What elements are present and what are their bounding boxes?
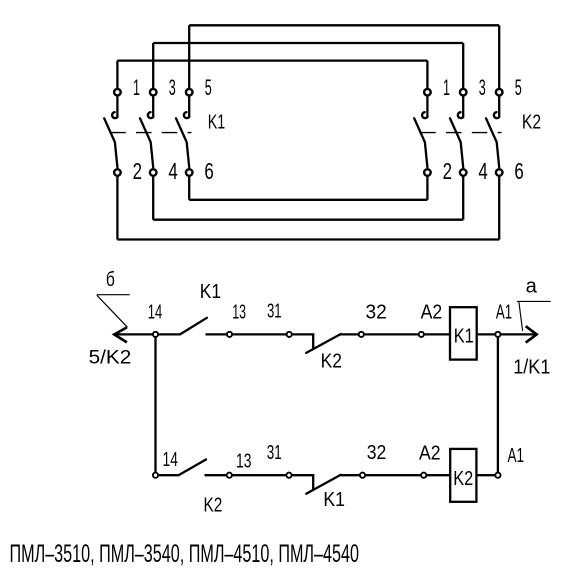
mechanical link dashed line K2 [420, 132, 501, 134]
wire: rung1 node32 to nodeA2 [364, 333, 419, 335]
contact blade K2 pole 3-4 [450, 118, 463, 167]
node 14 (rung1) [153, 332, 158, 337]
node 32 (rung1) [359, 332, 364, 337]
wire + arrow to a (rung1 right end) [501, 326, 537, 342]
svg-text:5: 5 [515, 75, 522, 100]
contactor K2 main pole 5-6 [486, 25, 503, 239]
svg-text:14: 14 [148, 301, 163, 323]
wire: vertical feed right (nodeA1 to lower rung) [497, 337, 499, 473]
svg-text:K1: K1 [323, 489, 345, 511]
wire: top bus L3 (K1:5 to K2:5) [189, 24, 499, 26]
svg-text:A2: A2 [421, 301, 443, 323]
wire: bottom bus (K1:6 to K2:2) [189, 199, 427, 201]
svg-text:6: 6 [514, 158, 523, 184]
wire: rung2 node32 to nodeA2 [365, 474, 421, 476]
node 31 (rung1) [287, 332, 292, 337]
svg-text:K2: K2 [522, 111, 541, 133]
contact blade K1 pole 1-2 [104, 118, 117, 167]
node a: flag label [517, 274, 551, 331]
wire: K1 pole 3-4 top lead [152, 43, 154, 88]
fixed contact lead+hook K1 pole 5-6 [184, 96, 190, 118]
svg-text:32: 32 [366, 301, 387, 323]
wire: rung2 nodeA2 to coil [426, 474, 449, 476]
wire: K1 pole 3-4 bottom lead [152, 176, 154, 219]
contactor K1 main pole 1-2 [104, 61, 121, 240]
terminal circle K2 pole 5-6 top [496, 89, 503, 96]
wire: K2 pole 3-4 bottom lead [462, 176, 464, 219]
svg-text:1: 1 [133, 75, 140, 100]
terminal circle K1 pole 3-4 top [150, 89, 157, 96]
node 13 (rung1) [227, 332, 232, 337]
fixed contact lead+hook K2 pole 1-2 [422, 96, 428, 118]
terminal circle K2 pole 3-4 bottom [460, 169, 467, 176]
NO contact K2 (rung2) [158, 460, 227, 476]
wire: K2 pole 1-2 top lead [426, 61, 428, 89]
svg-text:5: 5 [205, 75, 212, 100]
wire: K1 pole 5-6 top lead [188, 25, 190, 88]
contactor K1 main pole 3-4 [140, 43, 157, 220]
terminal circle K2 pole 1-2 top [424, 89, 431, 96]
contact blade K1 pole 5-6 [176, 118, 189, 167]
terminal circle K1 pole 5-6 bottom [186, 169, 193, 176]
terminal circle K1 pole 3-4 bottom [150, 169, 157, 176]
wire: coil K1 to node A1 [478, 333, 496, 335]
svg-text:K2: K2 [453, 468, 473, 490]
svg-text:4: 4 [168, 158, 178, 184]
contactor K2 main pole 3-4 [450, 43, 467, 220]
svg-text:3: 3 [479, 75, 486, 100]
svg-text:A2: A2 [419, 443, 441, 465]
svg-text:6: 6 [204, 158, 213, 184]
contact blade K2 pole 5-6 [486, 118, 499, 167]
svg-text:ПМЛ–3510, ПМЛ–3540, ПМЛ–4510,: ПМЛ–3510, ПМЛ–3540, ПМЛ–4510, ПМЛ–4540 [10, 540, 360, 568]
wire: rung1 nodeA2 to coil [424, 333, 450, 335]
terminal circle K2 pole 1-2 bottom [424, 169, 431, 176]
svg-text:K1: K1 [454, 325, 474, 347]
svg-text:A1: A1 [508, 445, 525, 467]
wire: top bus L1 (K1:1 to K2:1) [117, 59, 427, 61]
wire: K1 pole 5-6 bottom lead [188, 176, 190, 200]
wire: K2 pole 1-2 bottom lead [426, 176, 428, 200]
contact blade K1 pole 3-4 [140, 118, 153, 167]
fixed contact lead+hook K1 pole 3-4 [148, 96, 154, 118]
svg-text:5/K2: 5/K2 [89, 346, 132, 368]
node 14 (rung2) [153, 473, 158, 478]
svg-text:K1: K1 [200, 281, 221, 303]
wire: K2 pole 3-4 top lead [462, 43, 464, 88]
svg-text:14: 14 [163, 449, 178, 471]
node A1 (rung1) [495, 332, 500, 337]
svg-text:1/K1: 1/K1 [513, 356, 550, 378]
node A2 (rung1) [419, 332, 424, 337]
svg-text:4: 4 [478, 158, 488, 184]
contactor K2 main pole 1-2 [414, 61, 431, 200]
arrowhead (wire to б) [114, 327, 127, 342]
fixed contact lead+hook K2 pole 5-6 [494, 96, 500, 118]
svg-text:3: 3 [169, 75, 176, 100]
svg-text:2: 2 [443, 158, 452, 184]
contact blade K2 pole 1-2 [414, 118, 427, 167]
svg-text:13: 13 [232, 301, 246, 323]
NO contact K1 (rung1) [158, 318, 227, 335]
svg-text:K2: K2 [204, 495, 223, 517]
terminal circle K1 pole 1-2 bottom [114, 169, 121, 176]
wire: vertical feed left (node14 to lower rung) [154, 337, 156, 473]
svg-text:32: 32 [367, 442, 387, 464]
node 31 (rung2) [286, 473, 291, 478]
wire: coil K2 to node A1 [478, 474, 496, 476]
terminal circle K1 pole 1-2 top [114, 89, 121, 96]
coil K1 [450, 307, 477, 359]
wire: K2 pole 5-6 bottom lead [498, 176, 500, 239]
wire: K1 pole 1-2 top lead [116, 61, 118, 89]
wire: rung2 node13 to node31 [232, 474, 287, 476]
terminal circle K1 pole 5-6 top [186, 89, 193, 96]
wire: K1 pole 1-2 bottom lead [116, 176, 118, 239]
node 32 (rung2) [360, 473, 365, 478]
terminal circle K2 pole 3-4 top [460, 89, 467, 96]
node б: flag label [97, 269, 130, 327]
wire: rung1 left segment [114, 333, 153, 335]
svg-text:31: 31 [267, 301, 282, 323]
contactor K1 main pole 5-6 [176, 25, 193, 200]
svg-text:A1: A1 [496, 301, 512, 323]
wire: bottom bus (K1:4 to K2:4) [153, 219, 463, 221]
mechanical link dashed line K1 [110, 132, 191, 134]
svg-text:б: б [106, 269, 115, 291]
svg-text:K1: K1 [208, 111, 226, 133]
terminal circle K2 pole 5-6 bottom [496, 169, 503, 176]
svg-text:13: 13 [236, 451, 251, 473]
NC contact K1 (rung2) [292, 475, 360, 494]
fixed contact lead+hook K1 pole 1-2 [112, 96, 118, 118]
svg-text:1: 1 [443, 75, 450, 100]
node 13 (rung2) [227, 473, 232, 478]
wire: top bus L2 (K1:3 to K2:3) [153, 42, 463, 44]
svg-text:31: 31 [267, 442, 282, 464]
svg-text:K2: K2 [321, 351, 342, 373]
svg-text:2: 2 [133, 158, 142, 184]
node A2 (rung2) [421, 473, 426, 478]
coil K2 [450, 449, 476, 502]
node A1 (rung2) [495, 473, 500, 478]
wire: rung1 node13 to node31 [232, 333, 287, 335]
fixed contact lead+hook K2 pole 3-4 [458, 96, 464, 118]
wire: bottom bus (K1:2 to K2:6) [117, 238, 499, 240]
NC contact K2 (rung1) [292, 334, 359, 353]
wire: K2 pole 5-6 top lead [498, 25, 500, 88]
svg-text:a: a [526, 274, 538, 297]
